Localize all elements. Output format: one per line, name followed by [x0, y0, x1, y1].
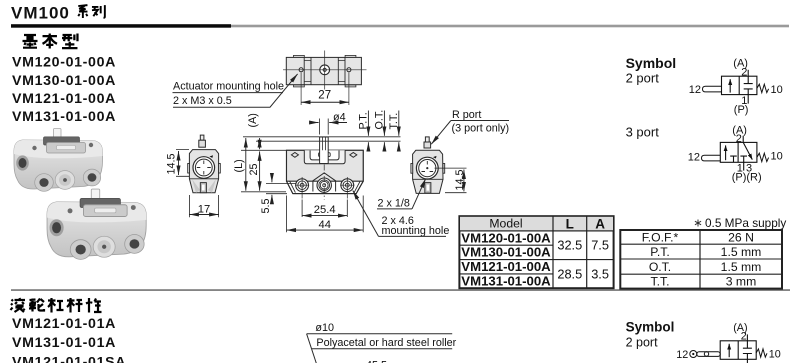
dimension 25 — [259, 151, 261, 190]
symbol 3 port plunger — [702, 155, 721, 161]
svg-text:O.T.: O.T. — [373, 110, 385, 130]
svg-text:VM100: VM100 — [11, 3, 70, 22]
svg-text:45.5: 45.5 — [366, 360, 387, 363]
title VM100 — [11, 3, 70, 22]
bottom symbol labels — [676, 322, 781, 361]
label R port — [431, 109, 509, 144]
front view port left — [296, 179, 309, 192]
dimension 5.5 — [266, 176, 296, 202]
svg-text:2 port: 2 port — [626, 336, 658, 350]
bottom section rule — [11, 289, 790, 290]
free position reference lines — [243, 137, 401, 141]
dimension 14.5 left — [176, 150, 189, 177]
dimension o4 — [310, 119, 348, 135]
svg-text:14.5: 14.5 — [454, 169, 466, 190]
svg-text:R port: R port — [452, 109, 481, 121]
svg-text:(A): (A) — [247, 113, 259, 127]
bottom symbol stubs — [746, 334, 748, 363]
svg-text:VM121-01-01A: VM121-01-01A — [12, 316, 116, 332]
svg-text:VM121-01-01SA: VM121-01-01SA — [12, 355, 126, 363]
front view port centerlines — [295, 165, 354, 200]
svg-text:ø4: ø4 — [333, 111, 346, 123]
svg-text:VM130-01-00A: VM130-01-00A — [461, 245, 551, 260]
svg-text:1.5 mm: 1.5 mm — [721, 245, 762, 259]
product photo valve 2 — [47, 189, 146, 259]
table 2 force travel — [620, 230, 782, 289]
svg-text:VM120-01-00A: VM120-01-00A — [461, 230, 551, 245]
svg-text:mounting hole: mounting hole — [382, 225, 450, 237]
supply note — [695, 216, 787, 230]
symbol 3 port labels — [688, 125, 783, 184]
svg-text:17: 17 — [198, 204, 210, 216]
svg-text:Symbol: Symbol — [626, 55, 677, 71]
svg-text:1.5 mm: 1.5 mm — [721, 260, 762, 274]
svg-text:3 port: 3 port — [626, 125, 660, 140]
front view center port boss — [313, 173, 336, 192]
svg-text:2 port: 2 port — [626, 71, 660, 86]
section heading CJK 基本型 — [23, 34, 78, 49]
Symbol heading — [626, 55, 677, 85]
svg-text:VM120-01-00A: VM120-01-00A — [12, 55, 116, 71]
model list roller type — [12, 316, 126, 363]
svg-text:Polyacetal or hard steel rolle: Polyacetal or hard steel roller — [316, 337, 456, 349]
svg-text:10: 10 — [771, 84, 783, 96]
svg-text:L: L — [566, 216, 574, 231]
symbol 2 port plunger — [703, 86, 722, 92]
front view port center — [317, 178, 331, 192]
dimension 25.4 — [302, 200, 347, 218]
symbol 3 port exhaust diagonal — [743, 142, 752, 159]
svg-text:2 x M3 x 0.5: 2 x M3 x 0.5 — [173, 95, 232, 107]
svg-text:(L): (L) — [233, 159, 245, 172]
svg-text:VM121-01-00A: VM121-01-00A — [461, 259, 551, 274]
section heading CJK 滚轮杠杆性 — [11, 298, 102, 313]
svg-text:3 mm: 3 mm — [726, 275, 756, 289]
dimension 17 — [189, 195, 218, 217]
svg-text:12: 12 — [688, 151, 700, 163]
front view plunger — [320, 137, 329, 164]
front view corner diamonds — [291, 153, 356, 158]
symbol 3 port blocked ports — [730, 156, 747, 162]
svg-text:(P): (P) — [734, 104, 749, 116]
label 2 x 1/8 — [377, 179, 426, 210]
symbol 3 port stubs — [742, 136, 745, 171]
left side view circle — [193, 155, 215, 178]
dimension 27 — [301, 101, 349, 103]
dimension 44 — [287, 196, 364, 233]
title CJK 系列 — [78, 5, 105, 18]
bottom symbol heading — [626, 319, 675, 349]
right side view circle — [416, 156, 438, 179]
svg-text:3.5: 3.5 — [591, 266, 609, 281]
svg-text:10: 10 — [769, 348, 781, 360]
clipped dimension 45.5 — [366, 360, 387, 363]
top view center circle — [320, 65, 330, 75]
product photo valve 1 — [14, 129, 103, 192]
front view port right — [341, 179, 354, 192]
right side view — [411, 137, 445, 194]
symbol 3 port flow arrow — [725, 145, 727, 160]
svg-text:2: 2 — [736, 133, 742, 145]
svg-text:P.T.: P.T. — [358, 112, 370, 129]
svg-text:14.5: 14.5 — [166, 153, 178, 174]
dimension PT — [367, 111, 369, 150]
svg-text:(3 port only): (3 port only) — [452, 122, 510, 134]
label o10 — [315, 322, 334, 334]
svg-text:VM131-01-00A: VM131-01-00A — [12, 109, 116, 125]
3 port heading — [626, 125, 660, 140]
symbol 2 port flow arrow — [729, 79, 731, 92]
dimension 14.5 right — [435, 168, 467, 193]
svg-text:28.5: 28.5 — [557, 266, 582, 281]
top view body — [286, 55, 361, 87]
bottom symbol flow arrow — [728, 344, 730, 357]
header rule gray — [231, 25, 789, 28]
label actuator mounting hole — [173, 74, 298, 107]
svg-text:26 N: 26 N — [728, 231, 754, 245]
bottom symbol roller lever — [690, 351, 720, 358]
symbol 3 port spring — [757, 153, 769, 161]
bottom symbol blocked ports — [743, 341, 752, 360]
symbol 2 port spring — [757, 84, 769, 92]
left side view — [188, 135, 221, 193]
roller callout — [307, 334, 453, 363]
svg-text:2 x 1/8: 2 x 1/8 — [378, 198, 410, 210]
svg-text:P.T.: P.T. — [650, 245, 669, 259]
symbol 2 port stubs — [747, 70, 749, 104]
svg-text:VM121-01-00A: VM121-01-00A — [12, 91, 116, 107]
svg-text:Model: Model — [489, 217, 522, 231]
symbol 3 port valve body — [720, 142, 757, 162]
svg-text:VM130-01-00A: VM130-01-00A — [12, 73, 116, 89]
svg-text:12: 12 — [689, 84, 701, 96]
dimension (L) — [245, 138, 247, 191]
dimension (A) — [259, 138, 261, 149]
svg-text:5.5: 5.5 — [260, 198, 272, 213]
svg-text:44: 44 — [318, 219, 330, 231]
svg-text:32.5: 32.5 — [557, 238, 582, 253]
svg-text:(P)(R): (P)(R) — [732, 171, 762, 183]
svg-text:O.T.: O.T. — [649, 260, 671, 274]
svg-text:VM131-01-00A: VM131-01-00A — [461, 273, 551, 288]
svg-text:25.4: 25.4 — [314, 204, 336, 216]
symbol 2 port valve body — [722, 76, 757, 94]
svg-text:2: 2 — [741, 331, 747, 343]
top view mounting holes — [299, 68, 351, 72]
svg-text:Symbol: Symbol — [626, 319, 675, 334]
bottom symbol valve body — [720, 341, 756, 360]
svg-text:12: 12 — [676, 349, 688, 361]
svg-text:Actuator mounting hole: Actuator mounting hole — [173, 80, 284, 92]
svg-text:A: A — [595, 216, 605, 231]
label 2 x 4.6 mounting hole — [353, 191, 450, 238]
svg-text:0.5 MPa supply: 0.5 MPa supply — [705, 216, 786, 230]
symbol 2 port labels — [689, 58, 783, 117]
svg-text:VM131-01-01A: VM131-01-01A — [12, 335, 116, 351]
svg-text:27: 27 — [318, 90, 331, 102]
symbol 2 port blocked ports — [744, 76, 753, 94]
extension lines left — [241, 150, 286, 192]
top view centerlines — [283, 51, 367, 106]
svg-text:T.T.: T.T. — [651, 275, 670, 289]
front view top slot — [304, 150, 345, 163]
svg-text:7.5: 7.5 — [591, 238, 609, 253]
svg-text:2: 2 — [741, 66, 747, 78]
dimension OT — [383, 111, 385, 150]
front view body — [287, 150, 364, 193]
header rule black — [11, 24, 231, 28]
svg-text:T.T.: T.T. — [388, 113, 400, 130]
svg-text:10: 10 — [771, 151, 783, 163]
svg-text:25: 25 — [248, 163, 260, 175]
dimension TT — [398, 111, 400, 150]
model list basic type — [12, 55, 116, 126]
bottom symbol spring — [756, 349, 767, 357]
table 1 model L A — [459, 216, 613, 288]
svg-text:F.O.F.*: F.O.F.* — [642, 231, 679, 245]
svg-text:ø10: ø10 — [315, 322, 334, 334]
